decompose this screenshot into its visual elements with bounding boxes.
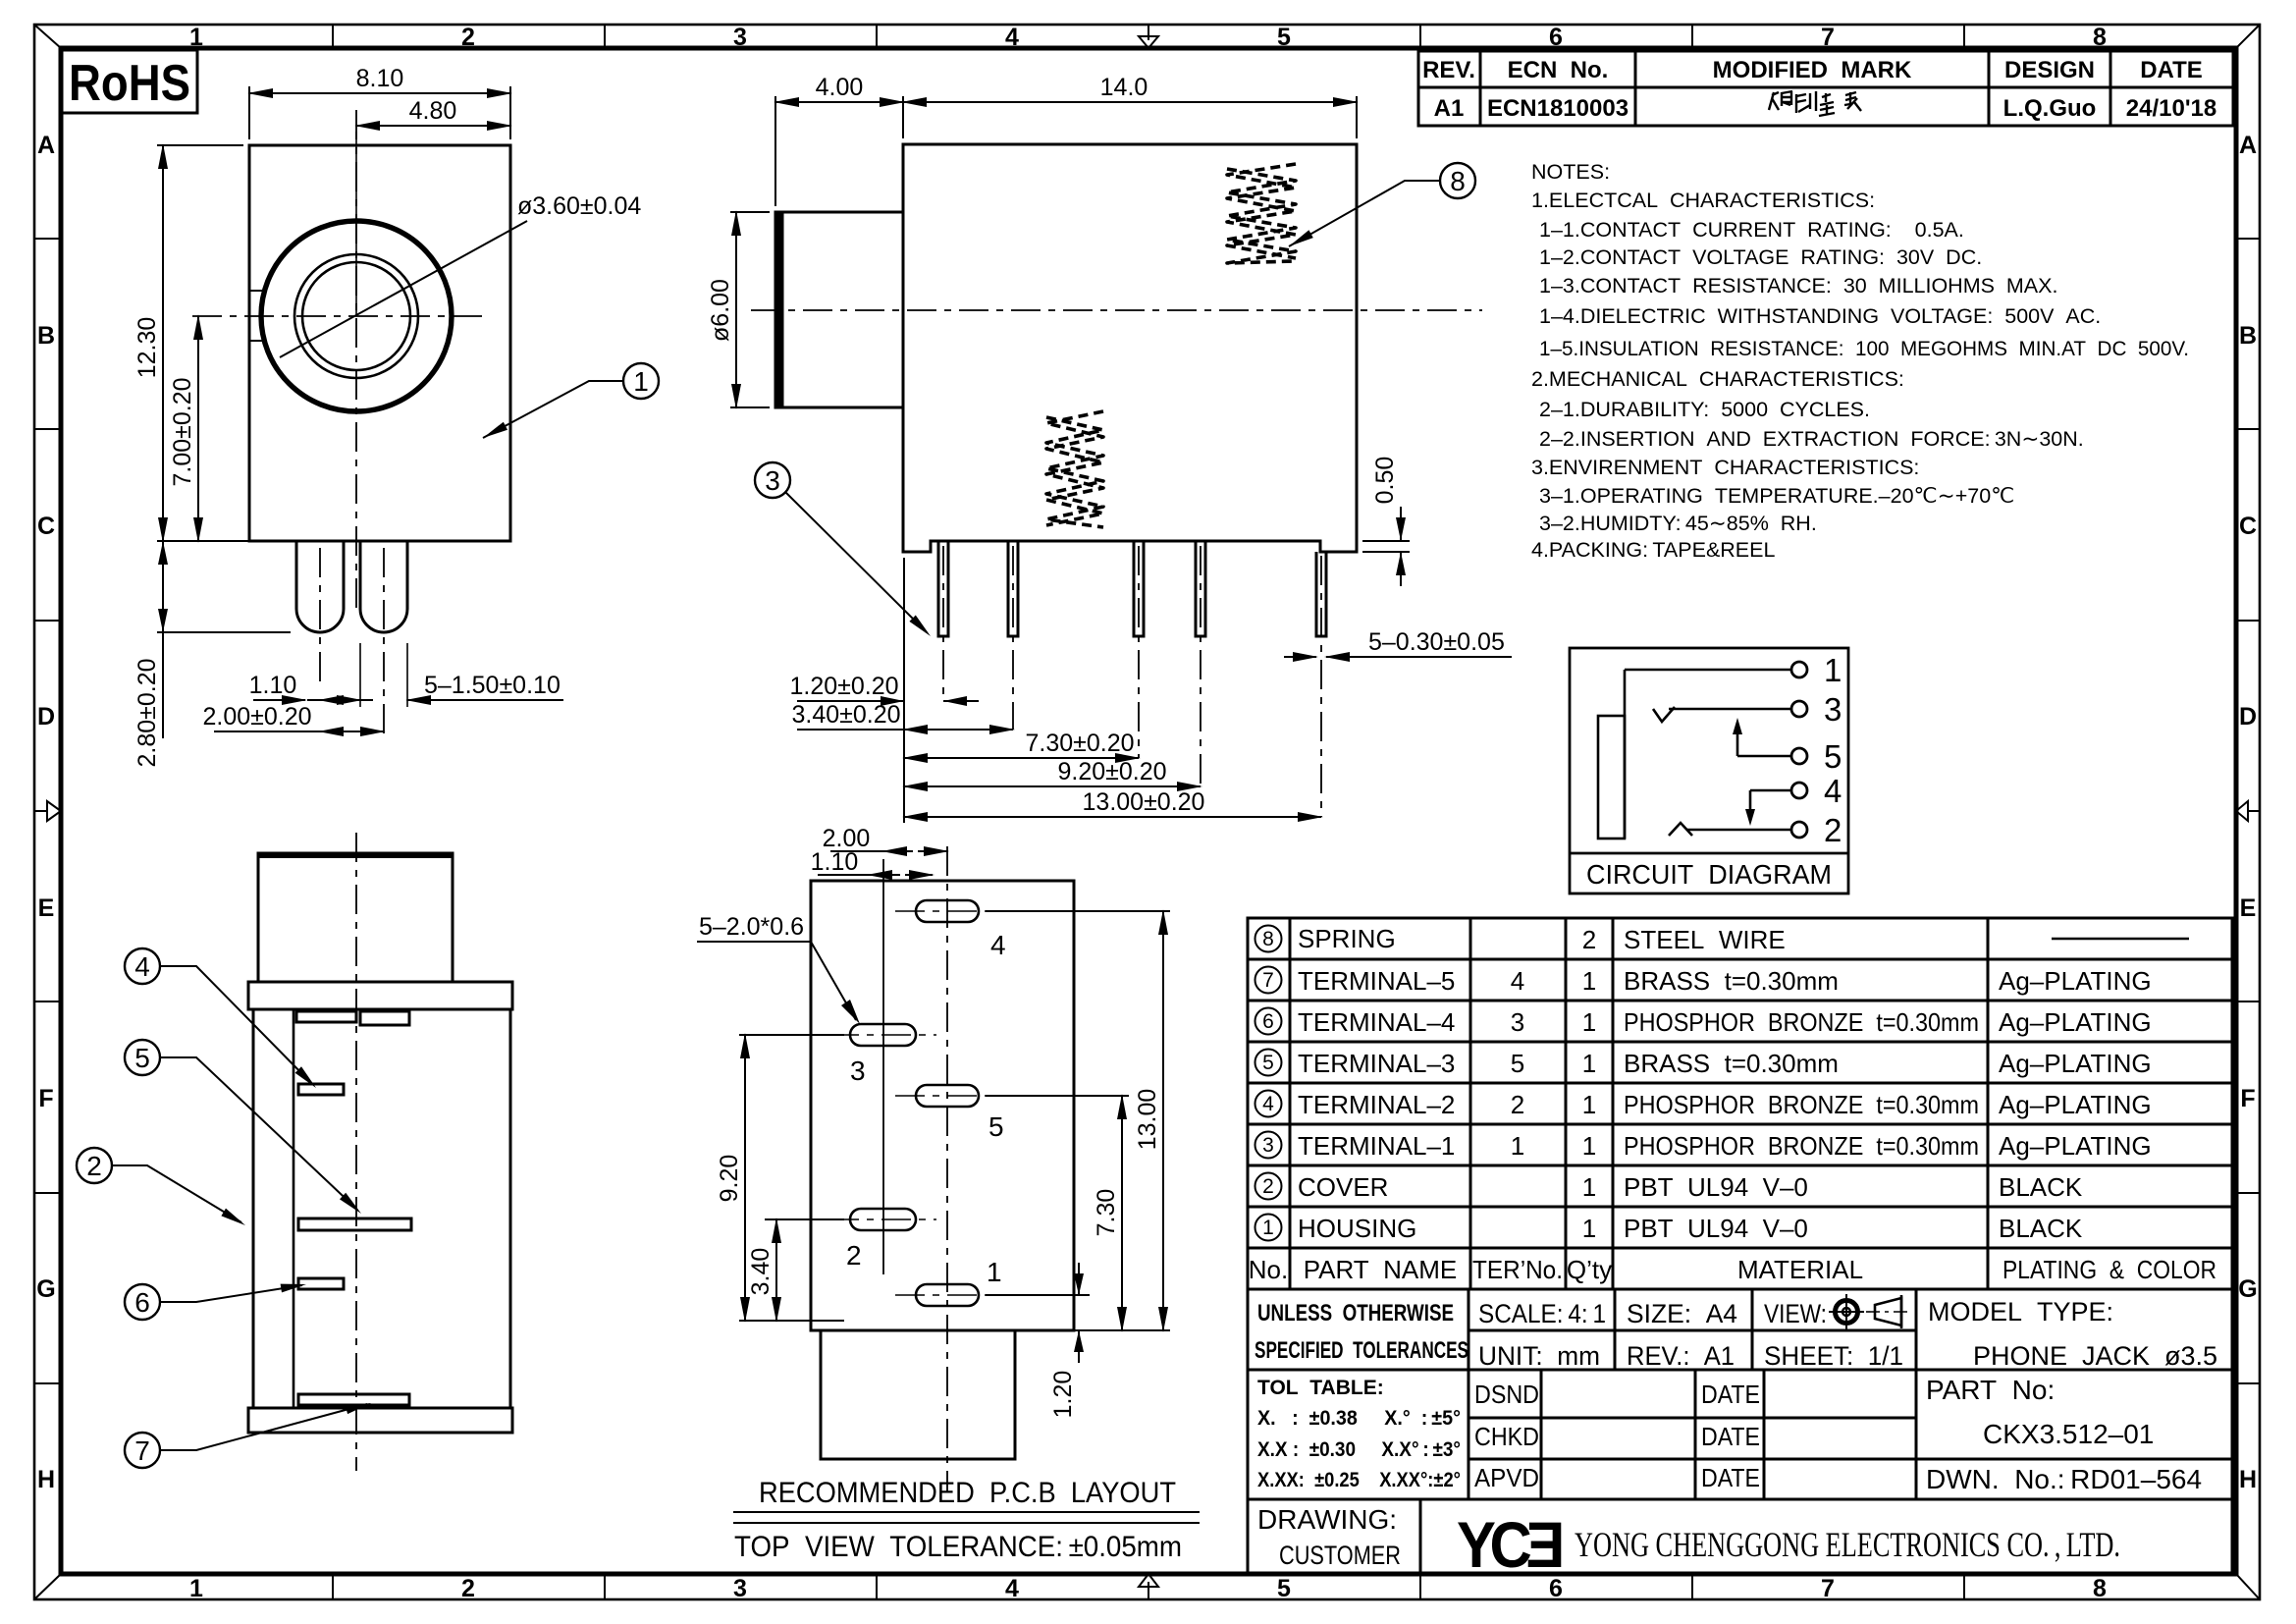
svg-text:5–0.30±0.05: 5–0.30±0.05 xyxy=(1368,628,1505,656)
svg-text:YCƎ: YCƎ xyxy=(1457,1508,1562,1581)
pcb layout centerlines xyxy=(882,859,884,1274)
BOM rows text xyxy=(1249,924,2216,1284)
svg-text:MODEL TYPE:: MODEL TYPE: xyxy=(1928,1297,2113,1326)
dim 2.80 xyxy=(133,541,291,768)
front view jack barrel circles xyxy=(249,221,452,411)
svg-text:1.20: 1.20 xyxy=(1049,1371,1077,1419)
label 7 balloon xyxy=(125,1403,371,1468)
pcb slot 2 xyxy=(829,1209,936,1271)
svg-text:E: E xyxy=(38,894,55,922)
svg-text:ECN No.: ECN No. xyxy=(1508,57,1609,83)
svg-text:3.40±0.20: 3.40±0.20 xyxy=(791,701,900,729)
svg-text:4.00: 4.00 xyxy=(816,74,864,101)
svg-text:SPRING: SPRING xyxy=(1298,924,1396,953)
svg-text:PART NAME: PART NAME xyxy=(1304,1255,1458,1284)
svg-text:3.40: 3.40 xyxy=(747,1248,774,1296)
svg-text:3–1.OPERATING TEMPERATURE.–20: 3–1.OPERATING TEMPERATURE.–20℃∼+70℃ xyxy=(1539,484,2014,508)
label 1 housing balloon xyxy=(483,363,659,438)
side view pins xyxy=(938,541,1326,636)
circuit jack sleeve xyxy=(1598,670,1625,839)
pcb dim 1.20 xyxy=(986,1263,1095,1418)
svg-text:DATE: DATE xyxy=(1701,1463,1760,1492)
spring lower xyxy=(1046,411,1103,527)
svg-text:3: 3 xyxy=(1262,1134,1274,1157)
pcb slot 3 xyxy=(829,1024,936,1086)
svg-text:REV.: REV. xyxy=(1422,57,1475,83)
pcb layout titles xyxy=(733,1477,1200,1563)
dim 4.80 xyxy=(356,97,510,316)
svg-text:13.00±0.20: 13.00±0.20 xyxy=(1083,788,1205,816)
svg-text:1: 1 xyxy=(189,24,203,51)
svg-text:1: 1 xyxy=(1582,1049,1596,1078)
svg-text:1–2.CONTACT VOLTAGE RATING:: 1–2.CONTACT VOLTAGE RATING: 30V DC. xyxy=(1539,245,1982,269)
svg-text:1–4.DIELECTRIC WITHSTANDING: 1–4.DIELECTRIC WITHSTANDING VOLTAGE: 500… xyxy=(1539,304,2101,328)
back view centerline xyxy=(355,833,357,1471)
svg-text:VIEW:: VIEW: xyxy=(1764,1299,1827,1328)
svg-text:1: 1 xyxy=(1582,1172,1596,1202)
label 6 balloon xyxy=(125,1284,306,1320)
svg-text:C: C xyxy=(2239,513,2257,540)
company name xyxy=(1575,1525,2120,1564)
svg-text:CHKD: CHKD xyxy=(1474,1422,1539,1451)
svg-text:2: 2 xyxy=(461,1575,475,1602)
spring 8 top xyxy=(1227,164,1296,263)
pcb dim 9.20 xyxy=(716,1035,844,1321)
modified mark chinese glyphs xyxy=(1769,91,1861,116)
svg-text:2: 2 xyxy=(1582,925,1596,954)
label 4 balloon xyxy=(125,948,316,1088)
svg-text:3: 3 xyxy=(1511,1007,1524,1037)
svg-text:DSND: DSND xyxy=(1474,1380,1539,1409)
pcb label 5-2.0x0.6 xyxy=(697,913,860,1024)
dim dia 6.00 xyxy=(707,212,770,407)
svg-text:3: 3 xyxy=(733,24,747,51)
title block grid xyxy=(1248,1289,2232,1574)
dia 3.60 leader xyxy=(280,192,641,357)
svg-text:5–2.0*0.6: 5–2.0*0.6 xyxy=(699,913,804,941)
approval rows xyxy=(1474,1380,1760,1492)
svg-text:PART No:: PART No: xyxy=(1926,1375,2055,1405)
svg-text:2.00±0.20: 2.00±0.20 xyxy=(202,703,311,731)
svg-text:DATE: DATE xyxy=(2140,57,2203,83)
svg-text:4: 4 xyxy=(1005,24,1019,51)
circuit pin 2 contact xyxy=(1669,812,1842,848)
svg-text:1–1.CONTACT CURRENT RATING:: 1–1.CONTACT CURRENT RATING: 0.5A. xyxy=(1539,218,1964,242)
svg-text:SHEET: 1/1: SHEET: 1/1 xyxy=(1764,1341,1903,1371)
svg-text:Ag–PLATING: Ag–PLATING xyxy=(1999,1131,2152,1161)
svg-text:Ag–PLATING: Ag–PLATING xyxy=(1999,1090,2152,1119)
svg-text:0.50: 0.50 xyxy=(1371,457,1399,505)
svg-text:ECN1810003: ECN1810003 xyxy=(1487,95,1629,122)
svg-text:SCALE: 4: 1: SCALE: 4: 1 xyxy=(1478,1299,1606,1328)
svg-text:4: 4 xyxy=(1511,966,1524,996)
svg-text:TOL TABLE:: TOL TABLE: xyxy=(1257,1377,1384,1399)
svg-text:4.80: 4.80 xyxy=(409,97,457,125)
pcb layout outline xyxy=(811,881,1074,1459)
svg-text:TERMINAL–5: TERMINAL–5 xyxy=(1298,966,1455,996)
svg-text:CKX3.512–01: CKX3.512–01 xyxy=(1983,1419,2154,1449)
svg-text:7: 7 xyxy=(134,1435,150,1466)
svg-text:F: F xyxy=(2240,1085,2255,1112)
svg-text:PHOSPHOR BRONZE t=0.30mm: PHOSPHOR BRONZE t=0.30mm xyxy=(1624,1131,1979,1161)
svg-text:B: B xyxy=(37,322,55,350)
svg-text:REV.: A1: REV.: A1 xyxy=(1627,1341,1735,1371)
svg-text:MODIFIED MARK: MODIFIED MARK xyxy=(1713,57,1912,83)
svg-text:8: 8 xyxy=(1450,166,1466,196)
part no block xyxy=(1926,1375,2202,1494)
svg-text:TOP VIEW TOLERANCE: ±0.05mm: TOP VIEW TOLERANCE: ±0.05mm xyxy=(734,1531,1182,1563)
YCG logo xyxy=(1457,1508,1562,1581)
svg-text:DRAWING:: DRAWING: xyxy=(1257,1504,1397,1535)
dim 5-1.50 xyxy=(307,643,563,707)
svg-text:BRASS t=0.30mm: BRASS t=0.30mm xyxy=(1624,1049,1839,1078)
svg-text:PBT UL94 V–0: PBT UL94 V–0 xyxy=(1624,1214,1808,1243)
svg-text:5: 5 xyxy=(1277,24,1291,51)
svg-text:2–2.INSERTION AND EXTRACTION: 2–2.INSERTION AND EXTRACTION FORCE: 3N∼3… xyxy=(1539,427,2084,451)
dim 4.00 xyxy=(775,74,903,206)
label 2 cover balloon xyxy=(77,1148,245,1225)
svg-text:X. : ±0.38 X.° : ±5°: X. : ±0.38 X.° : ±5° xyxy=(1257,1407,1461,1430)
svg-text:8: 8 xyxy=(2093,1575,2107,1602)
svg-text:3: 3 xyxy=(765,465,780,496)
svg-text:MATERIAL: MATERIAL xyxy=(1737,1255,1863,1284)
svg-text:B: B xyxy=(2239,322,2257,350)
pcb slot 5 xyxy=(895,1085,1004,1142)
svg-text:A1: A1 xyxy=(1434,95,1465,122)
svg-text:F: F xyxy=(38,1085,53,1112)
svg-text:1–3.CONTACT RESISTANCE: 30: 1–3.CONTACT RESISTANCE: 30 MILLIOHMS MAX… xyxy=(1539,274,2057,298)
svg-text:5: 5 xyxy=(1277,1575,1291,1602)
svg-text:7: 7 xyxy=(1821,24,1835,51)
back view barrel xyxy=(258,853,453,982)
circuit pin 5 xyxy=(1733,718,1842,775)
svg-text:RECOMMENDED P.C.B LAYOUT: RECOMMENDED P.C.B LAYOUT xyxy=(759,1477,1176,1509)
dim 14.0 xyxy=(903,74,1357,138)
svg-text:BLACK: BLACK xyxy=(1999,1172,2083,1202)
svg-text:UNLESS OTHERWISE: UNLESS OTHERWISE xyxy=(1257,1300,1454,1326)
dim 1.10 xyxy=(249,672,373,700)
svg-text:Ag–PLATING: Ag–PLATING xyxy=(1999,966,2152,996)
svg-text:E: E xyxy=(2240,894,2257,922)
svg-text:CUSTOMER: CUSTOMER xyxy=(1279,1541,1401,1570)
label 3 terminal balloon xyxy=(755,462,931,636)
svg-text:3: 3 xyxy=(733,1575,747,1602)
svg-text:TERMINAL–3: TERMINAL–3 xyxy=(1298,1049,1455,1078)
dim 2.00 xyxy=(202,703,384,731)
svg-text:2: 2 xyxy=(846,1240,862,1271)
svg-text:5: 5 xyxy=(1511,1049,1524,1078)
svg-text:D: D xyxy=(37,703,55,731)
svg-text:X.X : ±0.30 X.X° : ±3°: X.X : ±0.30 X.X° : ±3° xyxy=(1257,1438,1461,1461)
svg-text:Q’ty: Q’ty xyxy=(1567,1255,1612,1284)
svg-text:PHOSPHOR BRONZE t=0.30mm: PHOSPHOR BRONZE t=0.30mm xyxy=(1624,1090,1979,1119)
svg-text:G: G xyxy=(2238,1275,2257,1303)
svg-text:6: 6 xyxy=(1262,1010,1274,1033)
svg-text:4: 4 xyxy=(990,930,1006,960)
svg-text:7: 7 xyxy=(1262,969,1274,992)
svg-text:TERMINAL–2: TERMINAL–2 xyxy=(1298,1090,1455,1119)
svg-text:L.Q.Guo: L.Q.Guo xyxy=(2003,95,2097,122)
svg-text:UNIT: mm: UNIT: mm xyxy=(1478,1341,1600,1371)
svg-text:ø3.60±0.04: ø3.60±0.04 xyxy=(517,192,641,220)
svg-text:1: 1 xyxy=(189,1575,203,1602)
svg-text:13.00: 13.00 xyxy=(1134,1089,1161,1151)
svg-text:7.30±0.20: 7.30±0.20 xyxy=(1025,730,1134,757)
svg-text:2: 2 xyxy=(1511,1090,1524,1119)
side view barrel xyxy=(775,212,903,407)
svg-text:TERMINAL–4: TERMINAL–4 xyxy=(1298,1007,1455,1037)
svg-text:TERMINAL–1: TERMINAL–1 xyxy=(1298,1131,1455,1161)
svg-text:6: 6 xyxy=(134,1287,150,1318)
RoHS logo xyxy=(62,50,197,113)
svg-text:1: 1 xyxy=(987,1257,1002,1287)
svg-text:No.: No. xyxy=(1249,1255,1288,1284)
side view body xyxy=(903,144,1357,552)
svg-text:1.20±0.20: 1.20±0.20 xyxy=(789,673,898,700)
circuit pin 4 xyxy=(1745,773,1842,826)
svg-text:CIRCUIT DIAGRAM: CIRCUIT DIAGRAM xyxy=(1586,859,1832,890)
svg-text:PBT UL94 V–0: PBT UL94 V–0 xyxy=(1624,1172,1808,1202)
svg-text:1.ELECTCAL CHARACTERISTICS:: 1.ELECTCAL CHARACTERISTICS: xyxy=(1531,189,1875,212)
svg-text:9.20±0.20: 9.20±0.20 xyxy=(1057,758,1166,785)
svg-text:1: 1 xyxy=(1262,1217,1274,1239)
BOM table grid xyxy=(1248,918,2232,1289)
svg-text:2–1.DURABILITY: 5000 CYCLES.: 2–1.DURABILITY: 5000 CYCLES. xyxy=(1539,398,1870,421)
svg-text:4: 4 xyxy=(1262,1093,1274,1115)
svg-text:3.ENVIRENMENT CHARACTERISTICS: 3.ENVIRENMENT CHARACTERISTICS: xyxy=(1531,456,1919,479)
svg-text:7.00±0.20: 7.00±0.20 xyxy=(169,377,196,486)
svg-text:2.80±0.20: 2.80±0.20 xyxy=(133,658,161,767)
svg-text:4.PACKING: TAPE&REEL: 4.PACKING: TAPE&REEL xyxy=(1531,538,1775,562)
svg-text:8.10: 8.10 xyxy=(356,65,404,92)
svg-text:1: 1 xyxy=(1824,652,1842,688)
pcb dim 3.40 xyxy=(747,1219,844,1321)
svg-text:NOTES:: NOTES: xyxy=(1531,160,1610,184)
svg-text:1: 1 xyxy=(633,366,649,397)
pcb slot 1 xyxy=(895,1257,1002,1306)
svg-text:5–1.50±0.10: 5–1.50±0.10 xyxy=(424,672,561,699)
svg-text:8: 8 xyxy=(1262,928,1274,950)
svg-text:1: 1 xyxy=(1582,966,1596,996)
tol table texts xyxy=(1257,1377,1461,1491)
front view housing outline xyxy=(249,145,510,541)
circuit diagram box xyxy=(1570,648,1848,893)
svg-text:YONG CHENGGONG ELECTRONICS CO.: YONG CHENGGONG ELECTRONICS CO. , LTD. xyxy=(1575,1525,2120,1564)
pcb dim 2.00 xyxy=(823,825,947,852)
svg-text:DESIGN: DESIGN xyxy=(2004,57,2095,83)
svg-text:RoHS: RoHS xyxy=(69,55,190,112)
svg-text:2: 2 xyxy=(1262,1175,1274,1198)
dims below side view xyxy=(789,558,1321,823)
svg-text:5: 5 xyxy=(134,1043,150,1073)
svg-text:APVD: APVD xyxy=(1474,1463,1539,1492)
dim 5-0.30 xyxy=(1284,628,1512,657)
front view centerlines xyxy=(192,110,486,614)
circuit pin 3 contact xyxy=(1653,691,1842,728)
dim 7.00 xyxy=(169,316,198,541)
BOM balloons column xyxy=(1255,926,2190,1241)
svg-text:1.10: 1.10 xyxy=(249,672,297,699)
svg-text:3: 3 xyxy=(850,1056,866,1086)
svg-text:1.10: 1.10 xyxy=(811,848,859,876)
svg-text:TER’No.: TER’No. xyxy=(1472,1255,1563,1284)
svg-text:A: A xyxy=(2239,132,2257,159)
svg-text:SPECIFIED TOLERANCES: SPECIFIED TOLERANCES xyxy=(1255,1337,1468,1364)
front view pins xyxy=(296,541,407,632)
svg-text:3–2.HUMIDTY: 45∼85% RH.: 3–2.HUMIDTY: 45∼85% RH. xyxy=(1539,512,1817,535)
back view flange top xyxy=(248,982,512,1009)
svg-text:1: 1 xyxy=(1582,1131,1596,1161)
svg-text:5: 5 xyxy=(1262,1052,1274,1074)
view symbols xyxy=(1829,1294,1911,1329)
svg-text:1: 1 xyxy=(1511,1131,1524,1161)
svg-text:2.MECHANICAL CHARACTERISTICS:: 2.MECHANICAL CHARACTERISTICS: xyxy=(1531,367,1904,391)
svg-text:ø6.00: ø6.00 xyxy=(707,279,734,342)
label 8 spring balloon xyxy=(1289,163,1475,246)
svg-text:14.0: 14.0 xyxy=(1100,74,1148,101)
svg-text:BLACK: BLACK xyxy=(1999,1214,2083,1243)
svg-text:Ag–PLATING: Ag–PLATING xyxy=(1999,1007,2152,1037)
circuit pin 1 xyxy=(1625,652,1842,688)
back view flange bottom xyxy=(248,1408,512,1433)
back view body xyxy=(253,1009,510,1408)
svg-text:4: 4 xyxy=(1824,773,1842,809)
svg-text:2: 2 xyxy=(1824,812,1842,848)
svg-text:H: H xyxy=(37,1466,55,1493)
svg-text:A: A xyxy=(37,132,55,159)
svg-text:3: 3 xyxy=(1824,691,1842,728)
revision table xyxy=(1418,51,2233,126)
svg-text:DATE: DATE xyxy=(1701,1422,1760,1451)
svg-text:HOUSING: HOUSING xyxy=(1298,1214,1416,1243)
svg-text:X.XX: ±0.25 X.XX°:±2°: X.XX: ±0.25 X.XX°:±2° xyxy=(1257,1469,1461,1491)
title block row1 texts xyxy=(1255,1297,2217,1371)
svg-text:12.30: 12.30 xyxy=(133,317,161,379)
svg-text:STEEL WIRE: STEEL WIRE xyxy=(1624,925,1786,954)
svg-text:8: 8 xyxy=(2093,24,2107,51)
dim 0.50 xyxy=(1362,457,1410,586)
dim 8.10 xyxy=(249,65,510,139)
svg-text:Ag–PLATING: Ag–PLATING xyxy=(1999,1049,2152,1078)
pcb dim 7.30 xyxy=(986,1096,1129,1330)
svg-text:G: G xyxy=(36,1275,55,1303)
svg-text:9.20: 9.20 xyxy=(716,1155,743,1203)
svg-text:1: 1 xyxy=(1582,1214,1596,1243)
svg-text:H: H xyxy=(2239,1466,2257,1493)
svg-text:1: 1 xyxy=(1582,1007,1596,1037)
side view centerline xyxy=(751,309,1482,311)
svg-text:7.30: 7.30 xyxy=(1093,1189,1120,1237)
svg-text:24/10'18: 24/10'18 xyxy=(2126,95,2216,122)
svg-text:D: D xyxy=(2239,703,2257,731)
svg-text:4: 4 xyxy=(1005,1575,1019,1602)
notes text xyxy=(1531,160,2189,562)
svg-text:DWN. No.: RD01–564: DWN. No.: RD01–564 xyxy=(1926,1464,2202,1494)
svg-text:6: 6 xyxy=(1549,24,1563,51)
svg-text:BRASS t=0.30mm: BRASS t=0.30mm xyxy=(1624,966,1839,996)
svg-text:C: C xyxy=(37,513,55,540)
svg-text:PHONE JACK ø3.5: PHONE JACK ø3.5 xyxy=(1973,1341,2217,1371)
pcb slot 4 xyxy=(895,900,1006,960)
svg-text:2: 2 xyxy=(461,24,475,51)
dim 12.30 xyxy=(133,145,243,541)
svg-text:5: 5 xyxy=(1824,738,1842,775)
svg-text:1: 1 xyxy=(1582,1090,1596,1119)
back view terminals xyxy=(296,1011,411,1405)
svg-text:COVER: COVER xyxy=(1298,1172,1388,1202)
pcb dim 1.10 xyxy=(811,848,933,876)
svg-text:5: 5 xyxy=(988,1111,1004,1142)
svg-text:PLATING & COLOR: PLATING & COLOR xyxy=(2002,1255,2216,1284)
svg-text:DATE: DATE xyxy=(1701,1380,1760,1409)
svg-text:PHOSPHOR BRONZE t=0.30mm: PHOSPHOR BRONZE t=0.30mm xyxy=(1624,1007,1979,1037)
svg-text:7: 7 xyxy=(1821,1575,1835,1602)
svg-text:1–5.INSULATION RESISTANCE: 1: 1–5.INSULATION RESISTANCE: 100 MEGOHMS M… xyxy=(1539,337,2189,360)
pcb dim 13.00 xyxy=(986,911,1170,1330)
svg-text:SIZE: A4: SIZE: A4 xyxy=(1627,1299,1737,1328)
svg-text:2: 2 xyxy=(86,1151,102,1181)
drawing customer cell xyxy=(1257,1504,1401,1570)
label 5 balloon xyxy=(125,1040,361,1214)
svg-text:4: 4 xyxy=(134,951,150,982)
